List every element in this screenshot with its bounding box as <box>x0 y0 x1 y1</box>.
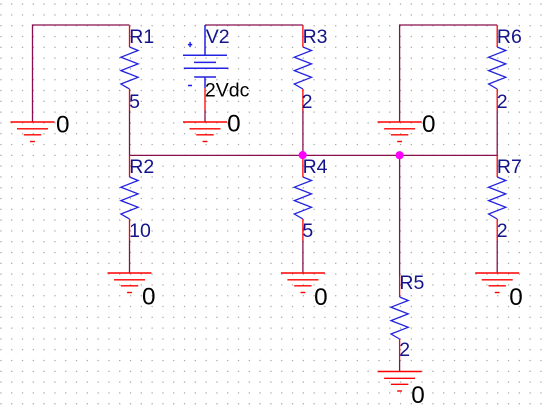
V2 pin 1 (+ top) <box>204 25 206 55</box>
node junction dot at R4 top <box>299 151 307 159</box>
wire: R7 bottom to ground G6 <box>496 241 498 274</box>
R4 body zigzag <box>294 177 311 219</box>
svg-text:2Vdc: 2Vdc <box>205 80 250 102</box>
svg-text:0: 0 <box>314 284 328 311</box>
svg-text:5: 5 <box>302 220 313 242</box>
svg-text:V2: V2 <box>206 26 230 48</box>
wire: R4 bottom to ground G5 <box>302 241 304 274</box>
wire: top-left horizontal ground to R1 <box>33 25 130 122</box>
resistor R6 <box>489 26 506 111</box>
wire: V2 top to R3 top <box>205 24 303 26</box>
ground G7 under R5 <box>378 372 422 392</box>
svg-text:0: 0 <box>142 283 156 310</box>
wire: R1 bottom to bus <box>129 110 131 155</box>
R6 pin 2 <box>496 89 498 111</box>
R2 pin 1 <box>129 156 131 178</box>
svg-text:R5: R5 <box>399 272 424 294</box>
V2 pin 2 (- bottom, red pin) <box>204 88 206 110</box>
wire: R5 bottom to ground G7 <box>399 361 401 372</box>
ground G3 mid-right top <box>378 122 422 142</box>
R7 pin 1 <box>496 156 498 178</box>
ground G6 under R7 <box>475 273 519 293</box>
R5 pin 1 <box>399 276 401 298</box>
svg-text:2: 2 <box>399 339 410 361</box>
ground G1 top-left <box>11 122 55 142</box>
svg-text:10: 10 <box>129 220 151 242</box>
R6 body zigzag <box>489 47 506 89</box>
wire: bus to R5 top <box>399 155 401 275</box>
wire: V2 bottom to ground G2 <box>204 110 206 122</box>
R2 body zigzag <box>121 177 138 219</box>
svg-text:0: 0 <box>509 284 523 311</box>
V2 plate short lower <box>194 76 216 78</box>
svg-text:0: 0 <box>227 110 241 137</box>
svg-text:R2: R2 <box>129 156 154 178</box>
resistor R1 <box>121 26 138 111</box>
wire: middle bus <box>130 154 498 156</box>
wire: mid riser to ground and to R6 <box>400 25 498 122</box>
svg-text:5: 5 <box>129 91 140 113</box>
R6 pin 1 <box>496 26 498 48</box>
wire: R3 bottom to bus <box>302 110 304 155</box>
node junction dot at R5 branch <box>396 151 404 159</box>
wire: R6 bottom to bus <box>496 110 498 155</box>
ground G2 under V2 <box>183 122 227 142</box>
svg-text:R1: R1 <box>129 26 154 48</box>
R5 pin 2 <box>399 339 401 361</box>
svg-text:0: 0 <box>422 111 436 138</box>
svg-text:2: 2 <box>497 91 508 113</box>
V2 plus polarity mark <box>188 44 192 46</box>
svg-text:2: 2 <box>302 91 313 113</box>
R7 pin 2 <box>496 219 498 241</box>
R4 pin 1 <box>302 156 304 178</box>
resistor R2 <box>121 156 138 241</box>
V2 plate long lower <box>184 67 229 69</box>
wire: R2 bottom to ground G4 <box>129 241 131 274</box>
R1 pin 1 <box>129 26 131 48</box>
R3 pin 2 <box>302 89 304 111</box>
voltage source V2 <box>183 25 228 110</box>
svg-text:2: 2 <box>497 220 508 242</box>
ground G4 under R2 <box>108 273 152 293</box>
V2 pin 2 (- bottom, symbol part) <box>204 77 206 88</box>
resistor R7 <box>489 156 506 241</box>
svg-text:R4: R4 <box>303 156 328 178</box>
R3 body zigzag <box>294 47 311 89</box>
svg-text:0: 0 <box>56 112 70 139</box>
R1 body zigzag <box>121 47 138 89</box>
R2 pin 2 <box>129 219 131 241</box>
R4 pin 2 <box>302 219 304 241</box>
R1 pin 2 <box>129 89 131 111</box>
svg-text:0: 0 <box>411 382 425 409</box>
R3 pin 1 <box>302 26 304 48</box>
svg-text:R7: R7 <box>497 156 522 178</box>
resistor R3 <box>294 26 311 111</box>
R7 body zigzag <box>489 177 506 219</box>
V2 plate short upper <box>194 61 216 63</box>
ground G5 under R4 <box>281 273 325 293</box>
V2 plate long upper <box>183 54 227 56</box>
resistor R5 <box>391 276 408 361</box>
svg-text:R3: R3 <box>303 26 328 48</box>
V2 minus polarity mark <box>188 85 192 87</box>
R5 body zigzag <box>391 297 408 339</box>
resistor R4 <box>294 156 311 241</box>
svg-text:R6: R6 <box>497 26 522 48</box>
